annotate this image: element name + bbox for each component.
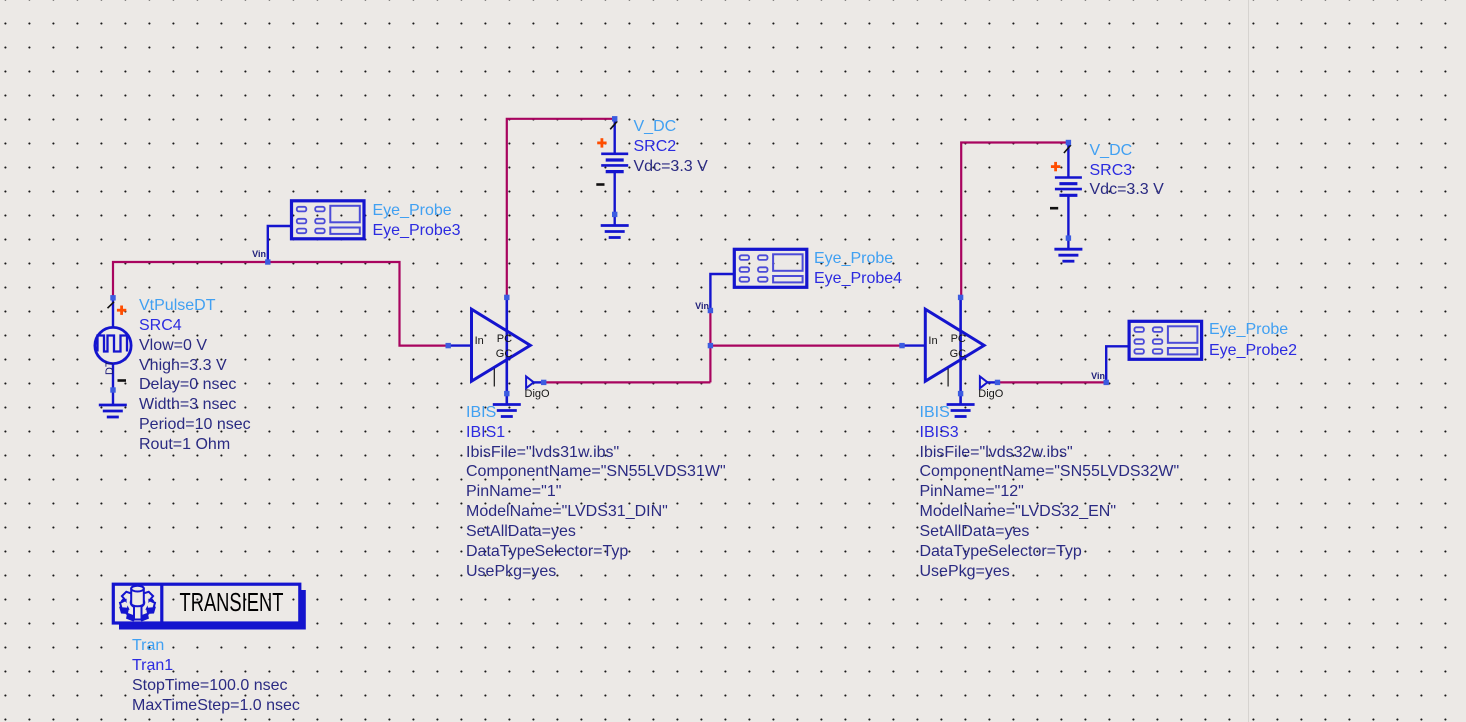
svg-text:DT: DT <box>104 360 116 375</box>
svg-text:TRANSIENT: TRANSIENT <box>180 588 284 617</box>
